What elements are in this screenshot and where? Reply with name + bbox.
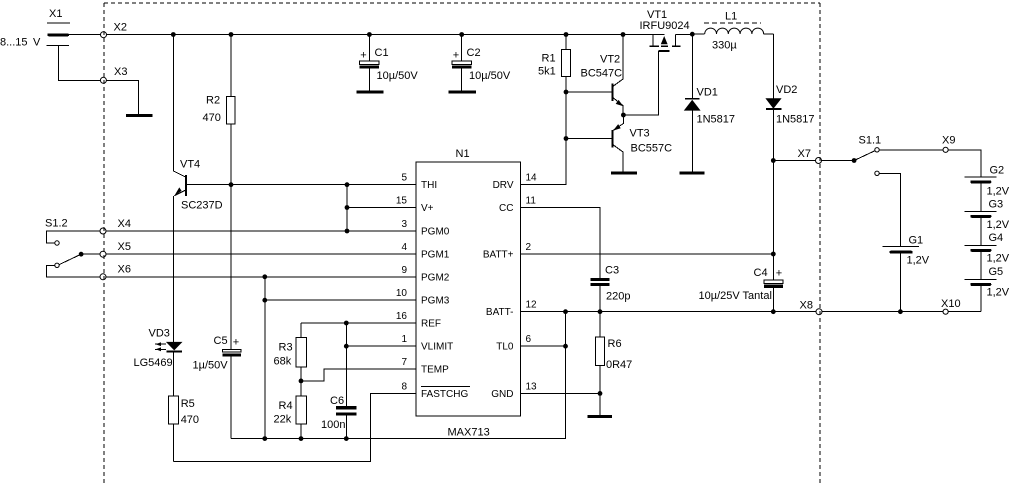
- wire PGM3 to pin 10: [265, 299, 416, 301]
- svg-text:GND: GND: [491, 389, 513, 400]
- switch S1.2: [45, 218, 100, 277]
- svg-text:L1: L1: [725, 11, 737, 23]
- svg-text:R4: R4: [279, 400, 293, 412]
- svg-text:PGM0: PGM0: [421, 227, 450, 238]
- svg-text:10µ/50V: 10µ/50V: [469, 70, 511, 82]
- svg-text:CC: CC: [499, 203, 513, 214]
- inductor L1: [704, 11, 764, 52]
- svg-text:R2: R2: [206, 95, 220, 107]
- node VT3 base: [564, 136, 569, 141]
- svg-text:5: 5: [401, 173, 407, 184]
- svg-text:5k1: 5k1: [538, 66, 556, 78]
- svg-text:1,2V: 1,2V: [987, 287, 1010, 299]
- svg-text:S1.1: S1.1: [859, 135, 882, 147]
- terminal X2: [101, 22, 127, 38]
- node rail/VD1: [690, 32, 695, 37]
- svg-text:IRFU9024: IRFU9024: [640, 20, 690, 32]
- svg-text:X1: X1: [49, 8, 62, 20]
- wire L1 to VD2: [764, 33, 774, 35]
- svg-text:C1: C1: [375, 47, 389, 59]
- svg-text:R3: R3: [279, 342, 293, 354]
- pin 2 BATT+: [483, 242, 532, 261]
- svg-text:10µ/25V Tantal: 10µ/25V Tantal: [699, 290, 772, 302]
- battery G3: [964, 199, 1009, 246]
- node VLIMIT: [344, 344, 349, 349]
- svg-text:+: +: [233, 337, 239, 349]
- svg-text:SC237D: SC237D: [181, 200, 223, 212]
- wire REF to pin 16: [301, 322, 416, 324]
- pin 11 CC: [499, 196, 536, 215]
- pin 1 VLIMIT: [401, 334, 453, 353]
- svg-text:1,2V: 1,2V: [987, 219, 1010, 231]
- resistor R5: [168, 396, 199, 462]
- svg-text:6: 6: [526, 334, 532, 345]
- node PGM3: [262, 298, 267, 303]
- node V+: [345, 205, 350, 210]
- pin 16 REF: [396, 311, 441, 330]
- node rail/C6: [344, 436, 349, 441]
- svg-text:C6: C6: [330, 395, 344, 407]
- node G1/BATT- line: [898, 309, 903, 314]
- node REF: [344, 321, 349, 326]
- pin 10 PGM3: [396, 288, 450, 307]
- svg-text:R6: R6: [608, 338, 622, 350]
- svg-text:C2: C2: [467, 47, 481, 59]
- svg-text:8: 8: [401, 381, 407, 392]
- svg-text:1µ/50V: 1µ/50V: [193, 360, 229, 372]
- svg-text:X6: X6: [118, 264, 131, 276]
- node X7 column: [771, 158, 776, 163]
- transistor VT3: [566, 115, 672, 171]
- wire THI line (VT4 base to pin 5): [187, 184, 416, 186]
- svg-text:G3: G3: [989, 199, 1004, 211]
- svg-text:X9: X9: [942, 135, 955, 147]
- wire R5 to FASTCHG: [173, 393, 416, 461]
- svg-text:R5: R5: [181, 398, 195, 410]
- svg-text:7: 7: [401, 357, 407, 368]
- svg-text:BATT-: BATT-: [486, 307, 514, 318]
- dashed enclosure border: [104, 3, 820, 485]
- node rail/R2: [229, 32, 234, 37]
- terminal X4: [100, 218, 131, 234]
- svg-text:X4: X4: [118, 218, 131, 230]
- node rail/C2: [459, 32, 464, 37]
- svg-text:VLIMIT: VLIMIT: [421, 342, 453, 353]
- svg-text:VD2: VD2: [776, 84, 797, 96]
- resistor R3: [274, 323, 307, 396]
- svg-text:BC557C: BC557C: [631, 143, 673, 155]
- svg-text:470: 470: [203, 112, 221, 124]
- svg-text:3: 3: [401, 219, 407, 230]
- svg-text:FASTCHG: FASTCHG: [421, 389, 468, 400]
- wire VD3 to R5: [173, 352, 175, 396]
- wire TEMP jog: [301, 369, 416, 381]
- svg-text:G5: G5: [989, 266, 1004, 278]
- wire CC to C3: [521, 208, 600, 279]
- capacitor C2: [452, 35, 511, 91]
- svg-text:X8: X8: [800, 300, 813, 312]
- svg-text:14: 14: [526, 173, 538, 184]
- ground (C2): [449, 91, 476, 94]
- svg-text:10µ/50V: 10µ/50V: [377, 70, 419, 82]
- wire V+ to pin 15: [347, 207, 416, 209]
- battery G5: [964, 266, 1009, 312]
- svg-text:0R47: 0R47: [606, 359, 632, 371]
- pin 13 GND: [491, 381, 537, 400]
- svg-text:+: +: [453, 50, 459, 62]
- svg-text:VT3: VT3: [630, 128, 650, 140]
- svg-text:16: 16: [396, 311, 408, 322]
- capacitor C3: [591, 265, 631, 312]
- svg-text:X3: X3: [114, 66, 127, 78]
- node BATT-/C4: [771, 309, 776, 314]
- resistor R6: [595, 312, 632, 415]
- svg-text:G1: G1: [909, 235, 924, 247]
- svg-text:TL0: TL0: [496, 342, 514, 353]
- svg-text:BATT+: BATT+: [483, 250, 514, 261]
- svg-text:S1.2: S1.2: [45, 218, 68, 230]
- resistor R1: [538, 35, 571, 125]
- terminal X6: [100, 264, 131, 280]
- wire switch node to X7: [773, 160, 815, 162]
- svg-text:R1: R1: [542, 53, 556, 65]
- node THI/V+ column: [345, 182, 350, 187]
- svg-text:MAX713: MAX713: [448, 427, 490, 439]
- battery G1: [883, 235, 930, 312]
- wire GND pin to R6 column: [521, 392, 600, 394]
- node TL0: [563, 344, 568, 349]
- LED VD3: [134, 328, 183, 370]
- svg-text:DRV: DRV: [493, 180, 514, 191]
- node PGM0: [345, 229, 350, 234]
- svg-text:G2: G2: [990, 165, 1005, 177]
- svg-text:15: 15: [396, 196, 408, 207]
- svg-text:VD3: VD3: [149, 328, 170, 340]
- svg-text:1,2V: 1,2V: [907, 255, 930, 267]
- ground (X3): [126, 114, 152, 117]
- svg-text:2: 2: [526, 242, 532, 253]
- svg-text:+: +: [776, 268, 782, 280]
- node BATT-/TL0 column: [563, 309, 568, 314]
- svg-text:THI: THI: [421, 180, 437, 191]
- svg-text:13: 13: [526, 381, 538, 392]
- svg-text:V: V: [33, 37, 41, 49]
- svg-text:X2: X2: [114, 22, 127, 34]
- svg-text:TEMP: TEMP: [421, 365, 449, 376]
- wire X1+ to X2: [69, 34, 101, 36]
- svg-text:VT2: VT2: [600, 54, 620, 66]
- node rail/VT4: [171, 32, 176, 37]
- svg-text:X7: X7: [798, 148, 811, 160]
- wire gate drive: [623, 51, 658, 115]
- svg-text:PGM1: PGM1: [421, 250, 450, 261]
- svg-text:1,2V: 1,2V: [987, 186, 1010, 198]
- diode VD1: [684, 34, 735, 171]
- pin 5 THI: [401, 173, 437, 192]
- wire S1.1 to X9: [879, 149, 943, 151]
- ground (N1 GND): [588, 415, 613, 418]
- wire S1.1 lower contact to G1: [879, 173, 900, 246]
- terminal X5: [100, 241, 131, 257]
- node GND/R6: [598, 391, 603, 396]
- battery G2: [964, 165, 1009, 212]
- svg-text:X5: X5: [118, 241, 131, 253]
- wire X7 column down to C4: [772, 161, 774, 280]
- svg-text:V+: V+: [421, 203, 434, 214]
- wire VD1 node to L1: [692, 33, 704, 35]
- node BATT-/R6: [598, 309, 603, 314]
- svg-text:VD1: VD1: [697, 87, 718, 99]
- svg-text:REF: REF: [421, 319, 441, 330]
- node BATT+/output column: [771, 252, 776, 257]
- capacitor C6: [321, 395, 357, 439]
- node rail/PGM2 column: [262, 436, 267, 441]
- power source X1: [0, 8, 70, 49]
- capacitor C4: [699, 267, 784, 312]
- svg-text:470: 470: [181, 414, 199, 426]
- capacitor C1: [360, 35, 419, 91]
- terminal X10: [941, 298, 961, 314]
- terminal X9: [942, 135, 955, 153]
- svg-text:1N5817: 1N5817: [697, 114, 736, 126]
- svg-text:LG5469: LG5469: [134, 357, 173, 369]
- switch S1.1: [822, 135, 882, 176]
- wire BATT+ to output column: [521, 253, 774, 255]
- transistor VT1 MOSFET: [640, 9, 693, 51]
- node driver output: [621, 113, 626, 118]
- wire DRV to driver column: [521, 124, 566, 185]
- wire bottom rail (BATT- net): [231, 312, 566, 439]
- wire X4 to PGM0: [106, 230, 416, 232]
- svg-text:X10: X10: [941, 298, 961, 310]
- wire X6 to PGM2: [106, 276, 416, 278]
- op-amp U1 IC N1 MAX713 box: [416, 148, 521, 439]
- resistor R2: [203, 35, 236, 185]
- svg-text:330µ: 330µ: [712, 40, 737, 52]
- pin 7 TEMP: [401, 357, 449, 376]
- wire VLIMIT to pin 1: [346, 345, 416, 347]
- svg-text:10: 10: [396, 288, 408, 299]
- wire PGM2/PGM3 column: [264, 277, 266, 439]
- svg-text:68k: 68k: [274, 356, 292, 368]
- svg-text:1: 1: [401, 334, 407, 345]
- wire X3 to ground: [106, 80, 138, 114]
- pin 12 BATT-: [486, 300, 537, 319]
- svg-text:4: 4: [401, 242, 407, 253]
- resistor R4: [274, 396, 307, 438]
- svg-text:220p: 220p: [606, 291, 630, 303]
- svg-text:12: 12: [526, 300, 538, 311]
- transistor VT2: [566, 35, 623, 116]
- ground (VT3): [611, 171, 637, 174]
- wire REF/VLIMIT/C6 column: [345, 323, 347, 406]
- node THI/R2/C5: [229, 182, 234, 187]
- pin 14 DRV: [493, 173, 537, 192]
- diode VD2: [765, 34, 814, 161]
- capacitor C5: [193, 185, 241, 439]
- svg-text:1N5817: 1N5817: [776, 114, 815, 126]
- svg-text:1,2V: 1,2V: [987, 253, 1010, 265]
- pin 6 TL0: [496, 334, 531, 353]
- svg-text:C5: C5: [214, 335, 228, 347]
- wire V+/PGM0 column: [346, 185, 348, 231]
- node rail/R1: [564, 32, 569, 37]
- wire X8 to X10 and battery stack: [822, 311, 943, 313]
- pin 8 FASTCHG: [401, 381, 470, 400]
- svg-text:BC547C: BC547C: [581, 68, 623, 80]
- svg-text:9: 9: [401, 265, 407, 276]
- pin 4 PGM1: [401, 242, 449, 261]
- svg-text:11: 11: [526, 196, 537, 207]
- svg-text:VT4: VT4: [180, 159, 200, 171]
- ground (VD1): [679, 171, 704, 174]
- node VT2 base: [564, 90, 569, 95]
- pin 3 PGM0: [401, 219, 449, 238]
- node rail/R4: [299, 436, 304, 441]
- node rail/C1: [367, 32, 372, 37]
- node R3/R4/TEMP: [299, 379, 304, 384]
- wire TL0 to column: [521, 345, 566, 347]
- battery G4: [964, 232, 1009, 280]
- svg-text:C3: C3: [605, 265, 619, 277]
- pin 9 PGM2: [401, 265, 449, 284]
- svg-text:C4: C4: [754, 267, 768, 279]
- node rail/VT2 collector: [621, 32, 626, 37]
- transistor VT4: [173, 35, 222, 342]
- ground (C1): [356, 91, 383, 94]
- svg-text:100n: 100n: [321, 419, 345, 431]
- svg-text:22k: 22k: [274, 414, 292, 426]
- wire X1- to X3: [58, 46, 100, 81]
- svg-text:G4: G4: [989, 232, 1004, 244]
- terminal X8: [800, 300, 823, 315]
- svg-text:8...15: 8...15: [0, 37, 28, 49]
- pin 15 V+: [396, 196, 434, 215]
- svg-text:+: +: [360, 50, 366, 62]
- wire main +rail: [107, 34, 665, 36]
- svg-text:PGM3: PGM3: [421, 296, 450, 307]
- svg-text:N1: N1: [456, 148, 470, 160]
- terminal X3: [100, 66, 127, 83]
- terminal X7: [798, 148, 822, 164]
- svg-text:PGM2: PGM2: [421, 272, 450, 283]
- wire BATT- line: [521, 311, 816, 313]
- wire X9 to battery stack: [948, 150, 981, 177]
- node PGM2: [262, 274, 267, 279]
- wire X5 to PGM1: [106, 253, 416, 255]
